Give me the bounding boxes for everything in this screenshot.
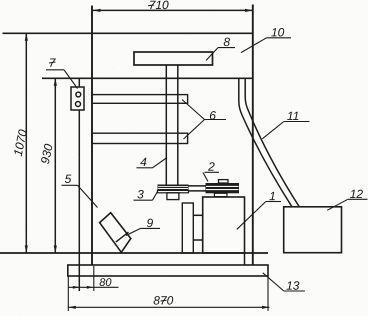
leader of label 13 — [263, 273, 305, 291]
right column — [252, 5, 254, 266]
svg-text:80: 80 — [99, 277, 112, 289]
floor line — [0, 252, 268, 254]
svg-text:930: 930 — [38, 142, 56, 165]
svg-text:1070: 1070 — [11, 128, 30, 157]
svg-text:710: 710 — [149, 0, 169, 12]
box of element 7 — [71, 87, 84, 110]
dimension line 710 — [93, 9, 253, 12]
beam bottom reference line — [42, 77, 253, 79]
svg-text:11: 11 — [287, 109, 299, 123]
pressing plate 8 — [134, 52, 213, 65]
leader of label 11 — [262, 122, 309, 139]
dimension line 1070 — [25, 33, 28, 253]
dimension line 930 — [54, 78, 57, 253]
extension line slab left edge — [67, 276, 69, 311]
svg-text:1: 1 — [269, 189, 276, 203]
leader of label 12 — [327, 199, 367, 210]
rod of element 7 (lower run) — [78, 110, 80, 291]
leader of label 1 — [237, 202, 281, 230]
pulley block 2 — [206, 183, 240, 193]
crossed seven bar on label 7 — [49, 62, 56, 63]
leader of label 8 — [206, 48, 235, 61]
leader of label 2 — [203, 172, 219, 181]
rod of element 7 (upper stub) — [78, 78, 80, 87]
tank box (element 12) — [284, 207, 342, 253]
left column (element 5) — [91, 6, 93, 266]
press body (element 1) — [203, 197, 245, 253]
svg-text:3: 3 — [137, 187, 144, 201]
svg-text:8: 8 — [223, 35, 230, 49]
tick between support and body (upper) — [193, 214, 202, 216]
leader of label 3 — [134, 192, 158, 201]
paper speckle noise — [234, 9, 235, 10]
stem right line (element 4) — [177, 65, 179, 185]
tick between support and body (lower) — [193, 239, 202, 241]
pulley block 3 — [158, 185, 189, 193]
dimension line 80 — [68, 286, 119, 289]
base slab (element 13) — [68, 265, 268, 276]
extension line for 80 at column — [93, 266, 95, 291]
svg-text:13: 13 — [286, 279, 300, 293]
svg-text:5: 5 — [65, 172, 72, 186]
extension line slab right edge — [267, 276, 269, 311]
svg-text:9: 9 — [147, 216, 154, 230]
leader of label 5 — [62, 185, 98, 207]
circle 1 of element 7 — [76, 92, 81, 97]
hub below pulley 3 — [167, 193, 179, 200]
stem left line (element 4) — [165, 65, 167, 185]
pipe 11 outer line — [239, 78, 292, 207]
crossed seven bar on label 710 — [148, 4, 154, 7]
upper guide rail (element 6) — [92, 95, 188, 104]
svg-text:4: 4 — [140, 155, 147, 169]
svg-text:870: 870 — [153, 293, 173, 307]
lower guide rail (element 6) — [92, 133, 188, 143]
leader of label 9 — [126, 228, 160, 235]
svg-text:12: 12 — [350, 187, 364, 201]
circle 2 of element 7 — [76, 102, 81, 107]
narrow support column left of body — [182, 203, 193, 253]
leader of label 4 — [137, 158, 168, 168]
pedestal under pulley 2 — [214, 193, 227, 196]
dimension line 870 — [68, 306, 269, 309]
top reference line (beam top) — [3, 32, 253, 34]
svg-text:6: 6 — [209, 109, 216, 123]
tilted chute (element 9) — [100, 213, 131, 253]
connecting shaft between pulleys — [189, 186, 206, 191]
svg-text:10: 10 — [271, 25, 285, 39]
crossed seven bar on label 870 — [161, 299, 167, 302]
svg-text:2: 2 — [207, 160, 215, 174]
leaders of label 6 — [182, 100, 226, 140]
leader of label 7 — [46, 70, 78, 89]
leader of label 10 — [241, 38, 291, 53]
pipe 11 inner line — [245, 78, 299, 207]
body right edge continuation to slab — [244, 253, 246, 265]
cap on pulley 2 — [219, 180, 229, 183]
svg-text:7: 7 — [49, 56, 57, 70]
